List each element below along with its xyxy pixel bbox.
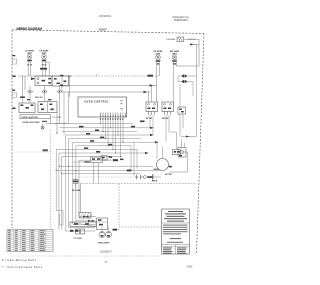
surface unit RR element symbol bbox=[172, 55, 177, 60]
node N bus bbox=[62, 91, 144, 93]
svg-text:PT CONN: PT CONN bbox=[74, 238, 83, 240]
footer fast-moving parts note bbox=[2, 259, 37, 262]
oven feed line 4 bbox=[62, 173, 141, 175]
svg-text:-1992: -1992 bbox=[186, 265, 193, 268]
WIRING DIAGRAM title bbox=[17, 27, 43, 31]
bowtie connector pair right bbox=[181, 74, 188, 83]
switch box SW-D bbox=[38, 102, 57, 113]
wire P2 drops bbox=[94, 160, 114, 184]
oven feed junction dots bbox=[56, 166, 77, 175]
bake element dotted run bbox=[78, 176, 135, 178]
svg-text:P9: P9 bbox=[121, 109, 123, 111]
web junction dots bbox=[100, 123, 124, 157]
op electronic oven control EOC box bbox=[78, 97, 127, 117]
svg-text:MOTOR: MOTOR bbox=[165, 174, 172, 176]
border part label bbox=[99, 29, 107, 31]
arrow to border right bbox=[181, 136, 197, 138]
dashed console border right bbox=[197, 34, 205, 254]
wire right switch drops into web bbox=[150, 115, 177, 150]
bundle verticals to bottom bbox=[50, 130, 79, 231]
wire LR jog right bbox=[45, 63, 49, 77]
web right connectors bbox=[145, 127, 159, 155]
node L1 bus dashed bbox=[60, 74, 159, 77]
bake element terminals bbox=[135, 174, 161, 179]
connector diamond D2 bbox=[42, 90, 47, 93]
connector diamond D3 bbox=[57, 90, 62, 93]
surface unit LF terminal marks bbox=[27, 60, 32, 66]
wire row2 to bundle bbox=[46, 113, 69, 134]
surface unit LF element symbol bbox=[27, 54, 32, 59]
svg-text:* - Non-Illustrated Parts: * - Non-Illustrated Parts bbox=[2, 266, 43, 269]
staircase turns to terminal block bbox=[66, 217, 96, 231]
dashed box bottom blob bbox=[113, 229, 118, 231]
SW-RR label bbox=[162, 118, 169, 120]
left mark on border D bbox=[12, 108, 15, 110]
wire diamond drops bbox=[30, 86, 60, 124]
motor windings bottom bbox=[98, 232, 112, 245]
hatched block TB bbox=[79, 213, 92, 219]
svg-text:THERMAL: THERMAL bbox=[166, 38, 176, 41]
left mark on border A bbox=[12, 55, 16, 64]
door lock box right bbox=[178, 148, 186, 158]
wire SW-R3 drops bbox=[180, 114, 183, 136]
wire color table cell text bbox=[8, 230, 45, 251]
dotted door ground line bbox=[13, 149, 52, 152]
oven feed line 2 bbox=[59, 165, 153, 167]
svg-text:WIRING DIAGRAM: WIRING DIAGRAM bbox=[17, 27, 43, 31]
wire light drop and lamp bbox=[41, 124, 44, 130]
wire LF stems bbox=[28, 59, 31, 76]
wire RF stems bbox=[157, 60, 160, 102]
surface unit RF element symbol bbox=[156, 55, 161, 60]
left mark on border B bbox=[12, 76, 15, 78]
surface unit LR label bbox=[39, 51, 49, 55]
arrow into switch A bbox=[31, 77, 35, 80]
svg-text:OVEN CONTROL: OVEN CONTROL bbox=[85, 101, 110, 104]
switch box SW-R3 bbox=[178, 107, 186, 114]
model number text bbox=[99, 14, 112, 18]
door switch cluster bbox=[101, 156, 123, 161]
year mark bbox=[186, 265, 193, 268]
surface unit LF label bbox=[25, 51, 35, 55]
legend color rows bbox=[163, 247, 187, 253]
dashed console border top bbox=[12, 30, 204, 34]
SW-RF pins below bbox=[149, 112, 155, 116]
arrow door wire bbox=[113, 159, 118, 161]
svg-text:OVEN LAMPS: OVEN LAMPS bbox=[98, 242, 111, 245]
surface unit RF label bbox=[153, 51, 163, 55]
legend notice box bbox=[162, 209, 190, 254]
oven light label line bbox=[23, 121, 48, 124]
svg-text:SW LKG: SW LKG bbox=[35, 97, 43, 99]
web wire labels bbox=[79, 121, 145, 153]
surface unit RR terminal marks bbox=[172, 60, 177, 64]
svg-text:RF SW: RF SW bbox=[146, 118, 152, 120]
svg-text:L1: L1 bbox=[96, 74, 98, 76]
wire from thermal limiter to right bbox=[176, 39, 199, 66]
EOC pin labels bbox=[100, 118, 124, 120]
wire drops from N bus bbox=[64, 92, 69, 135]
wire EOC drops into web bbox=[101, 121, 124, 157]
svg-text:# / Fast-Moving Parts: # / Fast-Moving Parts bbox=[2, 259, 37, 262]
label between rows bbox=[20, 97, 51, 101]
wire into door lock bbox=[182, 140, 185, 148]
svg-text:303127: 303127 bbox=[99, 29, 107, 31]
page number bbox=[105, 261, 108, 264]
thermal limiter right label bbox=[188, 39, 196, 41]
wire bus risers left bbox=[62, 76, 70, 97]
sensor component top-left of oven box bbox=[72, 177, 81, 192]
wire along right border bbox=[192, 45, 197, 137]
terminal block bar bbox=[70, 218, 108, 230]
surface unit LR element symbol bbox=[42, 54, 47, 59]
oven feed line 3 bbox=[56, 168, 160, 172]
wire risers to right switches bbox=[149, 86, 152, 103]
EOC pin row bbox=[101, 113, 126, 117]
left mark on border C bbox=[12, 90, 16, 98]
switch box SW-A bbox=[35, 76, 52, 86]
legend header text bbox=[164, 211, 187, 222]
svg-text:OVEN LIGHT SW: OVEN LIGHT SW bbox=[22, 117, 38, 119]
bracket wires above table bbox=[56, 211, 63, 225]
switch box SW-C bbox=[19, 103, 35, 113]
connector on N bus bbox=[144, 91, 150, 93]
wire RR stems bbox=[173, 60, 176, 102]
oven light switch label box bbox=[20, 115, 51, 119]
footer non-illustrated note bbox=[2, 266, 43, 269]
svg-text:P7: P7 bbox=[121, 104, 123, 106]
relay box K1 bbox=[173, 150, 181, 155]
staircase connector marks bbox=[70, 215, 94, 231]
thermal limiter TL1 bbox=[177, 37, 184, 42]
SW-RR pins below bbox=[165, 112, 171, 116]
wire relay to right down bbox=[170, 152, 188, 172]
wire left drops bbox=[18, 76, 62, 103]
node L2 bus bbox=[60, 84, 150, 86]
connector box P2 bbox=[85, 157, 103, 163]
dashed console border left bbox=[11, 30, 13, 228]
oven feed line 1 bbox=[73, 149, 90, 162]
svg-text:P1: P1 bbox=[121, 101, 123, 103]
svg-text:F0F306SA: F0F306SA bbox=[99, 14, 112, 18]
center web wires bbox=[54, 124, 156, 161]
publication number block bbox=[173, 16, 190, 22]
bottom part number bbox=[100, 250, 113, 253]
surface unit LR terminal marks bbox=[42, 60, 47, 66]
svg-text:OVEN LIGHT 40W: OVEN LIGHT 40W bbox=[23, 121, 40, 124]
svg-text:202003127: 202003127 bbox=[100, 250, 113, 253]
dotted border bottom bbox=[12, 255, 160, 257]
switch box SW-RF bbox=[146, 102, 158, 112]
connector diamond D1 bbox=[27, 90, 32, 93]
svg-text:BAKE: BAKE bbox=[154, 168, 160, 171]
label right of light box bbox=[53, 117, 62, 119]
thermal limiter label bbox=[166, 38, 176, 41]
wire color table frame bbox=[7, 230, 53, 252]
convection motor M1 bbox=[157, 159, 173, 177]
fuse links left bbox=[74, 229, 85, 240]
wire center-right verticals down bbox=[131, 142, 163, 176]
svg-text:RH OVEN: RH OVEN bbox=[72, 190, 81, 192]
wire bowtie links bbox=[178, 76, 197, 107]
svg-text:BROIL: BROIL bbox=[152, 180, 158, 182]
wire LR stems bbox=[43, 59, 46, 76]
connector bar under LR bbox=[40, 68, 47, 70]
connector on L2 bus bbox=[150, 84, 156, 86]
svg-text:RR SW: RR SW bbox=[162, 118, 169, 120]
oven cavity solid outline bbox=[80, 184, 82, 213]
svg-text:77: 77 bbox=[105, 261, 108, 264]
SW-RF label bbox=[146, 118, 152, 120]
switch box SW-RR bbox=[162, 102, 174, 112]
EOC pin arrowheads bbox=[100, 116, 126, 117]
wire drops into lamps bbox=[102, 227, 109, 232]
wire arrow stub under limiter bbox=[190, 44, 199, 46]
wire color table grid bbox=[7, 230, 53, 252]
surface unit RF terminal marks bbox=[156, 60, 161, 64]
broil element label bbox=[152, 180, 158, 182]
oven body dashed box bbox=[81, 184, 197, 230]
surface unit RR label bbox=[170, 51, 180, 55]
legend paragraph text bbox=[163, 225, 188, 243]
switch box SW-B bbox=[52, 76, 69, 86]
svg-text:5995319501: 5995319501 bbox=[174, 19, 189, 22]
